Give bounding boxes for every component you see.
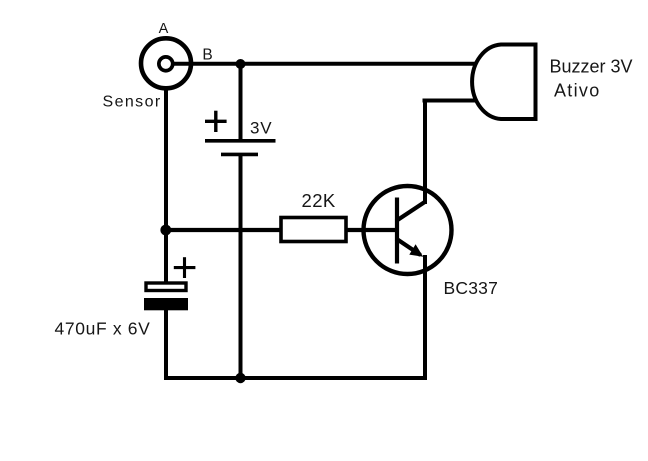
wire: battery - plate down to bottom rail xyxy=(239,155,243,378)
capacitor C1 negative plate (solid) xyxy=(144,298,188,310)
svg-text:Sensor: Sensor xyxy=(103,94,162,111)
wire: sensor B to buzzer top terminal xyxy=(173,62,477,66)
svg-text:A: A xyxy=(159,21,169,37)
buzzer body (dome) xyxy=(472,45,535,120)
wire: resistor to transistor base xyxy=(346,228,397,232)
left node junction dot xyxy=(160,225,171,236)
svg-text:470uF x 6V: 470uF x 6V xyxy=(55,319,151,339)
wire: sensor down to left node xyxy=(164,86,168,230)
capacitor C1 positive plate (outlined) xyxy=(146,283,186,291)
battery plus sign xyxy=(205,111,227,132)
capacitor plus sign xyxy=(174,257,196,278)
svg-text:Ativo: Ativo xyxy=(554,81,601,101)
transistor Q1 BC337 circle xyxy=(364,186,452,274)
wire: buzzer lower terminal horizontal xyxy=(423,99,478,103)
svg-text:Buzzer 3V: Buzzer 3V xyxy=(550,57,633,77)
bottom rail wire xyxy=(164,376,427,380)
svg-text:3V: 3V xyxy=(250,119,272,138)
battery B1 3V positive plate xyxy=(205,139,276,143)
transistor collector diagonal xyxy=(396,202,426,222)
bottom rail junction dot xyxy=(235,373,245,383)
wire: capacitor - plate down to bottom rail xyxy=(164,310,168,380)
transistor base bar xyxy=(395,198,399,264)
wire: left node to resistor (crosses battery wire, no junction) xyxy=(166,228,281,232)
svg-text:22K: 22K xyxy=(302,190,336,211)
transistor emitter diagonal xyxy=(396,239,421,256)
wire: left node down to capacitor + plate xyxy=(164,230,168,282)
battery B1 negative plate xyxy=(221,153,258,157)
wire: node B down to battery + plate xyxy=(239,64,243,140)
resistor R1 body xyxy=(281,218,346,242)
svg-text:B: B xyxy=(202,47,212,64)
sensor (contact sensor) xyxy=(141,38,191,88)
svg-text:BC337: BC337 xyxy=(444,278,499,298)
wire: emitter down to bottom rail xyxy=(423,255,427,378)
node B junction dot xyxy=(236,59,246,69)
transistor emitter arrowhead xyxy=(409,244,423,257)
wire: collector up to buzzer corner xyxy=(423,99,427,205)
